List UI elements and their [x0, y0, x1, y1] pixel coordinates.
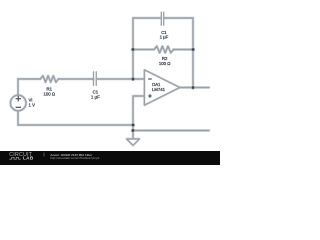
capacitor C1 (feedback) plates — [160, 12, 162, 25]
capacitor C1 (series input) plates — [93, 72, 95, 86]
svg-text:1 V: 1 V — [29, 102, 36, 107]
circuit artwork soft halo pass — [10, 18, 209, 145]
node junction feedback right R2 — [191, 47, 195, 51]
footer divider mark — [43, 153, 45, 157]
svg-text:100 Ω: 100 Ω — [159, 61, 171, 66]
CircuitLab logo waveform — [9, 157, 20, 159]
node junction output — [191, 85, 195, 89]
svg-text:LAB: LAB — [23, 155, 34, 160]
node junction inverting input — [131, 77, 135, 81]
op-amp inverting pin minus sign — [148, 78, 152, 80]
voltage source plus sign — [16, 98, 21, 100]
svg-text:100 Ω: 100 Ω — [43, 91, 55, 96]
svg-text:http://circuitlab.com/c/7hw6va: http://circuitlab.com/c/7hw6va7ymp4 — [50, 156, 99, 160]
voltage source minus sign — [16, 106, 21, 108]
circuit artwork main pass — [10, 18, 209, 145]
node junction feedback left R2 — [131, 47, 135, 51]
svg-text:1 µF: 1 µF — [91, 94, 100, 99]
svg-text:1 µF: 1 µF — [160, 34, 169, 39]
node junction ground rail left — [131, 123, 135, 127]
node junction ground — [131, 128, 135, 132]
svg-text:LM741: LM741 — [152, 87, 166, 92]
op-amp non-inverting pin plus sign — [148, 95, 152, 97]
footer bar — [0, 151, 220, 165]
